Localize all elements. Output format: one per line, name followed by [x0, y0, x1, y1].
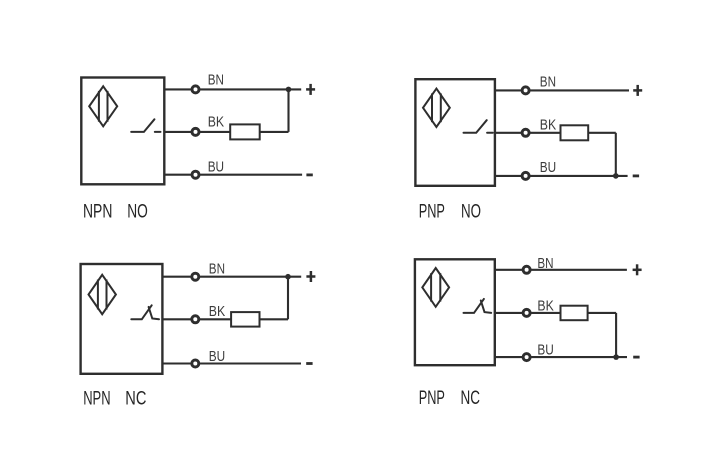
sensor body outline (PNP NO) [415, 79, 495, 186]
svg-text:BU: BU [537, 343, 553, 359]
svg-text:BN: BN [209, 262, 225, 278]
svg-text:BK: BK [537, 298, 554, 314]
svg-text:PNP: PNP [419, 388, 445, 409]
junction dot (NPN NO) [286, 87, 292, 93]
terminal circle BU (NPN NC) [192, 360, 199, 367]
wire BK left (PNP NC) [495, 312, 561, 314]
svg-text:BU: BU [208, 159, 224, 175]
minus terminal (NPN NC) [306, 362, 312, 365]
svg-text:BU: BU [540, 160, 556, 176]
sensor symbol diamond (NPN NO) [89, 86, 117, 126]
minus terminal (PNP NC) [633, 356, 639, 359]
terminal circle BK (NPN NO) [192, 128, 199, 135]
wire BN (NPN NC) [162, 276, 301, 278]
sensor symbol diamond (PNP NO) [423, 89, 450, 127]
svg-text:NC: NC [461, 388, 481, 409]
svg-text:NPN: NPN [83, 201, 112, 222]
plus terminal (PNP NO) [633, 85, 642, 96]
svg-text:BN: BN [540, 74, 556, 90]
wire BK left (NPN NO) [164, 131, 230, 133]
wire BK to BN vertical (NPN NC) [287, 277, 289, 320]
terminal circle BU (PNP NC) [523, 354, 530, 361]
terminal circle BN (PNP NO) [522, 87, 529, 94]
plus terminal (NPN NC) [306, 271, 315, 282]
svg-text:NO: NO [127, 201, 148, 222]
load resistor (NPN NO) [230, 124, 260, 139]
NC contact switch (PNP NC) [464, 299, 492, 313]
sensor body outline (NPN NO) [81, 78, 164, 185]
svg-text:NC: NC [125, 388, 146, 409]
wire BK right (PNP NO) [588, 132, 616, 134]
terminal circle BU (PNP NO) [522, 172, 529, 179]
terminal circle BN (NPN NO) [192, 86, 199, 93]
NC contact switch (NPN NC) [131, 305, 159, 319]
minus terminal (PNP NO) [633, 174, 639, 177]
caption NPN NO [83, 201, 148, 222]
plus terminal (NPN NO) [306, 84, 315, 95]
svg-text:BU: BU [209, 349, 225, 365]
svg-text:BN: BN [208, 73, 224, 89]
sensor body outline (PNP NC) [415, 259, 495, 365]
wire BK left (NPN NC) [162, 318, 231, 320]
terminal circle BK (PNP NC) [523, 309, 530, 316]
svg-text:BK: BK [208, 114, 225, 130]
caption PNP NC [419, 388, 480, 409]
wire BU (PNP NO) [495, 175, 628, 177]
junction dot (PNP NC) [613, 354, 619, 360]
load resistor (PNP NO) [561, 125, 589, 140]
load resistor (PNP NC) [561, 306, 588, 321]
caption NPN NC [83, 388, 146, 409]
wire BU (NPN NC) [162, 362, 301, 364]
svg-text:NO: NO [461, 201, 481, 222]
wire BK right (NPN NO) [260, 131, 289, 133]
terminal circle BN (PNP NC) [523, 266, 530, 273]
junction dot (NPN NC) [285, 274, 291, 280]
terminal circle BU (NPN NO) [192, 171, 199, 178]
svg-text:BN: BN [537, 256, 553, 272]
svg-text:BK: BK [209, 304, 226, 320]
sensor symbol diamond (NPN NC) [89, 275, 116, 314]
caption PNP NO [419, 201, 481, 222]
terminal circle BK (PNP NO) [522, 129, 529, 136]
terminal circle BK (NPN NC) [192, 316, 199, 323]
NO contact switch (PNP NO) [464, 120, 493, 133]
terminal circle BN (NPN NC) [192, 273, 199, 280]
svg-text:BK: BK [540, 117, 557, 133]
wire BK right (NPN NC) [260, 318, 289, 320]
sensor symbol diamond (PNP NC) [422, 268, 449, 307]
wire BK right (PNP NC) [588, 312, 617, 314]
svg-text:PNP: PNP [419, 201, 445, 222]
wire BK to BN vertical (NPN NO) [287, 89, 289, 131]
wire BN (PNP NC) [495, 269, 627, 271]
wire BU (PNP NC) [495, 356, 627, 358]
junction dot (PNP NO) [613, 173, 619, 179]
wire BN (NPN NO) [164, 88, 301, 90]
wire BK to BU vertical (PNP NO) [615, 133, 617, 176]
NO contact switch (NPN NO) [131, 119, 160, 132]
wire BK to BU vertical (PNP NC) [615, 313, 617, 357]
load resistor (NPN NC) [231, 312, 259, 327]
sensor body outline (NPN NC) [81, 264, 163, 374]
wire BN (PNP NO) [495, 89, 629, 91]
minus terminal (NPN NO) [306, 173, 312, 176]
plus terminal (PNP NC) [633, 264, 642, 275]
wire BK left (PNP NO) [495, 132, 561, 134]
svg-text:NPN: NPN [83, 388, 110, 409]
wire BU (NPN NO) [164, 174, 302, 176]
